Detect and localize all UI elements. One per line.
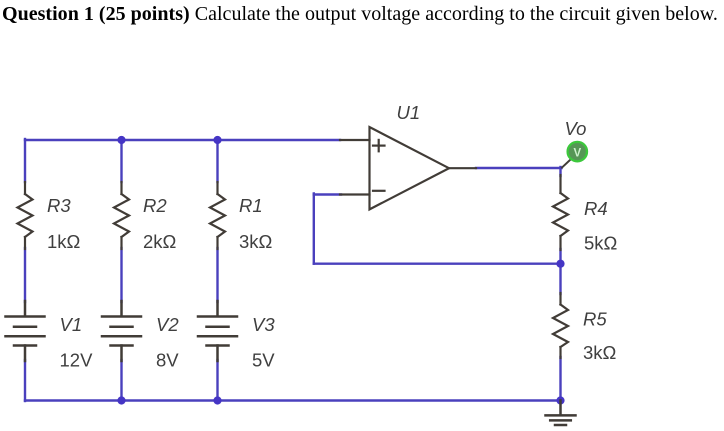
junction node: bottom rail / branch 2 (117, 396, 125, 404)
voltage source V1 (12V) (6, 301, 94, 371)
wire inverting input stub (314, 193, 341, 195)
voltage source V2 (8V) (102, 301, 179, 371)
wire Vo node down to R4 (559, 167, 561, 176)
resistor R3 (1kOhm) (18, 182, 81, 252)
svg-text:U1: U1 (397, 102, 421, 123)
svg-text:R3: R3 (47, 195, 71, 216)
junction node: bottom rail / ground (556, 396, 564, 404)
wire feedback horizontal (314, 263, 561, 265)
svg-text:8V: 8V (156, 350, 179, 371)
resistor R5 (3kOhm) (553, 293, 617, 363)
svg-text:R4: R4 (584, 198, 608, 219)
svg-text:V2: V2 (156, 314, 179, 335)
junction node: feedback / R4-R5 (556, 260, 564, 268)
resistor R4 (5kOhm) (553, 175, 618, 254)
svg-text:V3: V3 (252, 314, 275, 335)
wire V2 to bottom rail (120, 360, 122, 401)
wire R5 to bottom rail (559, 357, 561, 401)
junction node: top rail / branch 2 (117, 136, 125, 144)
junction node: bottom rail / branch 3 (213, 396, 221, 404)
wire top rail (25, 139, 340, 141)
wire feedback junction to R5 (559, 263, 561, 294)
wire op-amp output to Vo node (476, 167, 562, 169)
svg-text:R5: R5 (583, 309, 607, 330)
voltmeter probe Vo (562, 118, 587, 168)
wire feedback vertical (313, 194, 315, 264)
svg-text:5kΩ: 5kΩ (584, 233, 618, 254)
wire bottom rail (25, 399, 561, 401)
voltage source V3 (5V) (198, 301, 275, 371)
ground (546, 401, 576, 426)
svg-text:R2: R2 (143, 195, 167, 216)
op-amp U1 (340, 102, 476, 209)
svg-text:1kΩ: 1kΩ (47, 231, 81, 252)
svg-text:5V: 5V (252, 350, 275, 371)
junction node: top rail / branch 3 (213, 136, 221, 144)
svg-text:V: V (573, 147, 581, 159)
resistor R1 (3kOhm) (210, 182, 273, 252)
wire V1 to bottom rail (24, 360, 26, 401)
wire R1 to V3 (216, 248, 218, 302)
wire R4 to feedback junction (559, 249, 561, 264)
wire branch 3 top drop (216, 140, 218, 182)
wire left branch top drop (24, 139, 26, 182)
svg-text:3kΩ: 3kΩ (239, 231, 273, 252)
wire branch 2 top drop (120, 140, 122, 182)
svg-text:3kΩ: 3kΩ (583, 342, 617, 363)
svg-text:R1: R1 (239, 195, 263, 216)
svg-text:V1: V1 (60, 314, 83, 335)
resistor R2 (2kOhm) (114, 182, 177, 252)
svg-text:2kΩ: 2kΩ (143, 231, 177, 252)
svg-text:Vo: Vo (565, 118, 587, 139)
wire V3 to bottom rail (216, 360, 218, 401)
wire R2 to V2 (120, 248, 122, 302)
wire R3 to V1 (24, 248, 26, 302)
svg-text:12V: 12V (60, 350, 94, 371)
